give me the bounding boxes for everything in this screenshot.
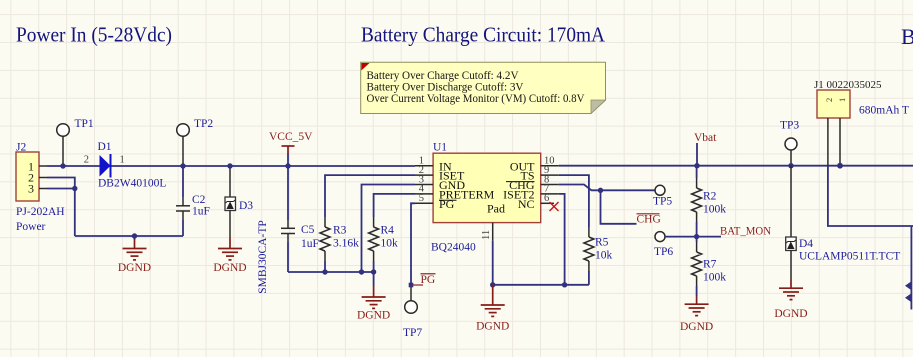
svg-text:J2: J2 <box>16 142 26 154</box>
test point TP3 <box>780 120 799 166</box>
svg-text:10k: 10k <box>381 238 399 250</box>
ground DGND (D4) <box>774 280 807 320</box>
svg-text:1: 1 <box>837 98 847 102</box>
svg-text:SMBJ30CA-TP: SMBJ30CA-TP <box>257 220 269 294</box>
resistor R2 <box>692 166 727 237</box>
svg-text:100k: 100k <box>703 272 726 284</box>
capacitor C2 <box>176 166 210 236</box>
svg-text:B: B <box>901 24 913 49</box>
pin 10 OUT <box>541 165 559 167</box>
svg-text:U1: U1 <box>433 142 447 154</box>
wire U1 GND down to rail <box>362 185 416 273</box>
connector J1 <box>814 79 882 166</box>
junction GND wire / rail <box>359 269 364 274</box>
svg-text:2: 2 <box>84 155 89 166</box>
junction Pad / rail / DGND <box>490 282 495 287</box>
svg-text:TP2: TP2 <box>194 118 213 130</box>
pin 9 TS <box>541 174 559 176</box>
resistor R7 <box>692 237 727 296</box>
ground DGND (center rail) <box>357 272 390 322</box>
ground DGND (left rail) <box>118 236 151 274</box>
wire J1 pin2 down and right <box>828 166 913 226</box>
net label PG (red tick) <box>411 284 423 286</box>
wire U1 ISET2 down to rail <box>559 194 565 285</box>
junction Vbat / R2 / bus <box>694 163 699 168</box>
ground rail center (C5/R3/GND/R4) <box>288 271 374 273</box>
junction ISET2 / rail <box>562 282 567 287</box>
svg-text:Battery Over Discharge Cutoff:: Battery Over Discharge Cutoff: 3V <box>367 82 525 94</box>
svg-text:PG: PG <box>421 274 436 286</box>
svg-text:100k: 100k <box>703 204 726 216</box>
svg-text:DGND: DGND <box>118 262 151 274</box>
svg-text:TP1: TP1 <box>75 118 94 130</box>
svg-text:10k: 10k <box>595 250 613 262</box>
svg-text:BAT_MON: BAT_MON <box>720 226 772 238</box>
svg-text:TP7: TP7 <box>403 327 422 339</box>
wires J2 pins 2,3 to ground rail <box>47 178 75 237</box>
diode D1 <box>84 141 167 190</box>
junction at TP1 / main wire <box>60 163 65 168</box>
test point TP5 <box>653 185 672 207</box>
svg-text:TP3: TP3 <box>780 120 799 132</box>
junction square at TP7 <box>409 283 414 288</box>
capacitor C5 <box>281 166 319 272</box>
svg-text:R7: R7 <box>703 259 717 271</box>
svg-text:Battery Charge Circuit: 170mA: Battery Charge Circuit: 170mA <box>361 23 606 47</box>
svg-text:2: 2 <box>824 98 834 102</box>
resistor R5 <box>584 227 613 285</box>
ground DGND (U1 Pad) <box>476 285 509 333</box>
pin 3 GND <box>415 184 433 186</box>
wire U1 OUT right bus <box>559 165 913 167</box>
ground DGND (D3) <box>213 238 246 274</box>
svg-text:R5: R5 <box>595 237 609 249</box>
svg-text:3.16k: 3.16k <box>333 238 359 250</box>
TVS diode D4 <box>786 166 901 280</box>
note box with charge cutoff text <box>361 62 606 113</box>
wire J2 pin1 to D1 anode <box>47 165 100 167</box>
svg-text:DGND: DGND <box>213 262 246 274</box>
junction D3 / main wire <box>227 163 232 168</box>
svg-text:680mAh T: 680mAh T <box>859 105 909 117</box>
svg-text:R3: R3 <box>333 225 347 237</box>
svg-text:Battery Over Charge Cutoff: 4.: Battery Over Charge Cutoff: 4.2V <box>367 70 520 82</box>
svg-text:TP5: TP5 <box>653 196 672 208</box>
pin 1 IN <box>415 165 433 167</box>
battery connector (cut off at right edge) <box>905 226 911 310</box>
svg-text:1: 1 <box>120 155 125 166</box>
test point TP7 <box>403 287 422 339</box>
svg-text:DGND: DGND <box>774 308 807 320</box>
svg-text:D4: D4 <box>799 238 813 250</box>
svg-text:BQ24040: BQ24040 <box>431 242 476 254</box>
svg-text:R2: R2 <box>703 191 717 203</box>
svg-text:C2: C2 <box>192 194 206 206</box>
junction VCC_5V / C5 / main wire <box>285 163 290 168</box>
svg-text:Pad: Pad <box>487 202 505 216</box>
svg-text:Power: Power <box>16 221 46 233</box>
svg-text:PG: PG <box>439 197 455 211</box>
svg-text:6: 6 <box>544 193 549 204</box>
junction R4 / rail / DGND <box>371 269 376 274</box>
pin 5 PG <box>415 202 433 204</box>
pin 1 (J1) <box>839 118 841 166</box>
pin 6 NC (no connect X) <box>541 202 554 204</box>
svg-text:DGND: DGND <box>476 321 509 333</box>
power port VCC_5V <box>269 131 313 166</box>
svg-text:1uF: 1uF <box>301 238 319 250</box>
pin 7 ISET2 <box>541 193 559 195</box>
net label Vbat <box>694 132 717 166</box>
connector J2 <box>16 142 65 234</box>
test point TP1 <box>57 118 94 166</box>
wire CHG stub to net label <box>601 190 637 224</box>
wire U1 PG down to TP7 <box>411 203 415 285</box>
svg-text:UCLAMP0511T.TCT: UCLAMP0511T.TCT <box>799 251 900 263</box>
svg-text:J1 0022035025: J1 0022035025 <box>814 79 882 91</box>
svg-text:D1: D1 <box>98 141 112 153</box>
junction J1 pin1 / bus <box>837 163 843 169</box>
junction CHG stub <box>598 188 603 193</box>
svg-text:3: 3 <box>28 182 34 196</box>
svg-text:Over Current Voltage Monitor (: Over Current Voltage Monitor (VM) Cutoff… <box>367 93 586 105</box>
svg-text:Power In (5-28Vdc): Power In (5-28Vdc) <box>16 23 172 47</box>
junction J2 pin3 <box>72 186 77 191</box>
svg-text:DB2W40100L: DB2W40100L <box>98 178 166 190</box>
wire D1 cathode to U1 IN <box>112 165 416 167</box>
TVS diode D3 <box>225 166 269 294</box>
junction R3 / rail <box>322 269 327 274</box>
pin 8 CHG <box>541 184 559 186</box>
svg-text:C5: C5 <box>301 224 315 236</box>
wire U1 PRETERM to R4 <box>374 194 415 217</box>
svg-text:R4: R4 <box>381 225 395 237</box>
svg-text:CHG: CHG <box>637 214 661 226</box>
junction at TP2 / C2 <box>180 163 185 168</box>
svg-text:Vbat: Vbat <box>694 132 717 144</box>
svg-text:D3: D3 <box>239 200 253 212</box>
svg-text:DGND: DGND <box>357 310 390 322</box>
ground DGND (R7) <box>680 296 713 333</box>
pin 4 PRETERM <box>415 193 433 195</box>
wire U1 TS to R5 <box>559 175 589 227</box>
test point TP6 and wire to BAT_MON node <box>654 232 673 258</box>
svg-text:PJ-202AH: PJ-202AH <box>16 206 65 218</box>
IC U1 BQ24040 <box>415 142 559 254</box>
svg-text:VCC_5V: VCC_5V <box>269 131 313 143</box>
junction node BAT_MON <box>694 234 699 239</box>
test point TP2 <box>177 118 214 166</box>
wire U1 CHG to TP5 (with jog) <box>559 185 656 191</box>
svg-text:NC: NC <box>518 197 535 211</box>
svg-text:1uF: 1uF <box>192 206 210 218</box>
resistor R4 <box>369 217 398 272</box>
ground rail left <box>75 235 183 237</box>
net label BAT_MON <box>697 236 721 238</box>
ground rail under U1 <box>492 241 494 285</box>
svg-text:5: 5 <box>419 193 424 204</box>
pin 2 (J1) <box>827 118 829 166</box>
svg-text:DGND: DGND <box>680 321 713 333</box>
svg-text:11: 11 <box>481 230 492 240</box>
net label CHG <box>637 214 661 226</box>
junction TP3 / D4 / bus <box>788 163 793 168</box>
junction rail / DGND <box>132 233 137 238</box>
pin 2 ISET <box>415 174 433 176</box>
wire U1 ISET to R3 <box>325 175 415 217</box>
resistor R3 <box>320 217 359 272</box>
svg-text:TP6: TP6 <box>654 246 673 258</box>
